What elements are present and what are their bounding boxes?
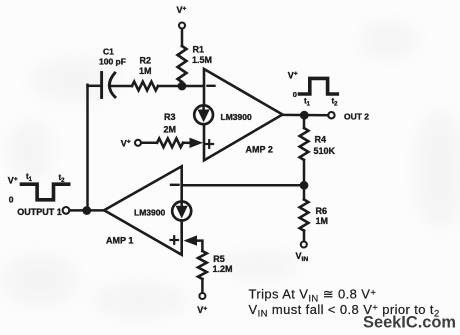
svg-text:R1: R1 [193, 45, 205, 55]
wire R2 to amp2 inverting input [158, 85, 202, 88]
svg-text:R4: R4 [315, 135, 327, 145]
wire amp1 plus input from R5 with arrowhead [184, 235, 203, 251]
power terminal V+ (feeds R3) [121, 138, 141, 148]
node A (junction R1/R2/amp2 minus) [178, 82, 187, 91]
wire amp1 output to OUTPUT 1 [70, 209, 105, 212]
svg-text:1M: 1M [316, 216, 329, 226]
op-amp U1 AMP 1 (LM3900) triangle [104, 166, 182, 255]
amp1 minus pin mark [171, 184, 179, 186]
wire amp2 output to OUT 2 [282, 114, 328, 117]
svg-text:AMP 1: AMP 1 [106, 235, 133, 245]
wire R3 to amp2 plus input with arrowhead [183, 138, 203, 148]
svg-text:510K: 510K [314, 146, 336, 156]
svg-text:1M: 1M [139, 66, 152, 76]
svg-text:LM3900: LM3900 [134, 207, 165, 217]
wire node C to amp1 inverting input [183, 184, 305, 187]
op-amp U2 AMP 2 (LM3900) triangle [204, 69, 283, 160]
svg-text:R6: R6 [316, 206, 328, 216]
wire V+ terminal to R1 top [181, 29, 184, 46]
svg-text:OUTPUT 1: OUTPUT 1 [17, 207, 62, 217]
svg-text:SeekIC.com: SeekIC.com [363, 314, 456, 332]
annotation trip condition text [249, 287, 440, 320]
power terminal V+ (top, feeds R1) [177, 5, 187, 29]
amp1 Norton current-source symbol [172, 202, 191, 221]
svg-text:LM3900: LM3900 [221, 112, 252, 122]
wire R4 to node C [303, 160, 306, 185]
amp2 plus pin mark [206, 140, 214, 148]
svg-text:C1: C1 [103, 47, 114, 57]
waveform at OUT 2 (positive pulse) [288, 70, 338, 107]
wire V+ to R3 [141, 142, 157, 145]
node D (feedback junction on amp1 output) [82, 206, 91, 215]
wire node C to R6 [303, 185, 306, 199]
resistor R2 [132, 56, 158, 91]
svg-text:R5: R5 [213, 254, 225, 264]
wire left branch corner to capacitor C1 [88, 85, 101, 88]
node B (amp2 output / R4 junction) [300, 111, 309, 120]
amp1 plus pin mark [171, 236, 179, 244]
amp2 Norton current-source symbol [194, 105, 213, 124]
svg-text:100 pF: 100 pF [99, 57, 126, 67]
svg-text:2M: 2M [164, 125, 177, 135]
wire C1 to R2 [111, 85, 133, 88]
wire R5 to V+ terminal [201, 279, 204, 293]
node C (R4/R6/amp1 minus junction) [300, 181, 309, 190]
terminal VIN [296, 242, 309, 264]
svg-text:R2: R2 [140, 56, 152, 66]
svg-text:1.2M: 1.2M [213, 264, 233, 274]
svg-text:R3: R3 [164, 112, 176, 122]
capacitor C1 [99, 47, 126, 98]
svg-text:0: 0 [9, 194, 14, 204]
svg-text:AMP 2: AMP 2 [246, 145, 273, 155]
terminal OUTPUT 1 [17, 207, 69, 217]
svg-text:1.5M: 1.5M [192, 55, 212, 65]
resistor R5 [198, 251, 233, 279]
terminal OUT 2 [328, 112, 369, 122]
wire left vertical branch (feedback) [86, 85, 89, 211]
amp2 minus pin mark [208, 85, 215, 87]
resistor R4 [300, 128, 336, 160]
wire R6 to VIN terminal [303, 231, 306, 242]
resistor R1 [178, 45, 212, 83]
wire R1 bottom to node A [181, 82, 184, 86]
resistor R6 [300, 200, 328, 231]
wire node B to R4 [303, 115, 306, 128]
power terminal V+ (feeds R5) [197, 293, 207, 315]
waveform at OUTPUT 1 (negative pulse) [8, 172, 69, 204]
svg-text:0: 0 [293, 90, 297, 99]
svg-text:OUT 2: OUT 2 [344, 112, 369, 122]
resistor R3 [157, 112, 183, 147]
